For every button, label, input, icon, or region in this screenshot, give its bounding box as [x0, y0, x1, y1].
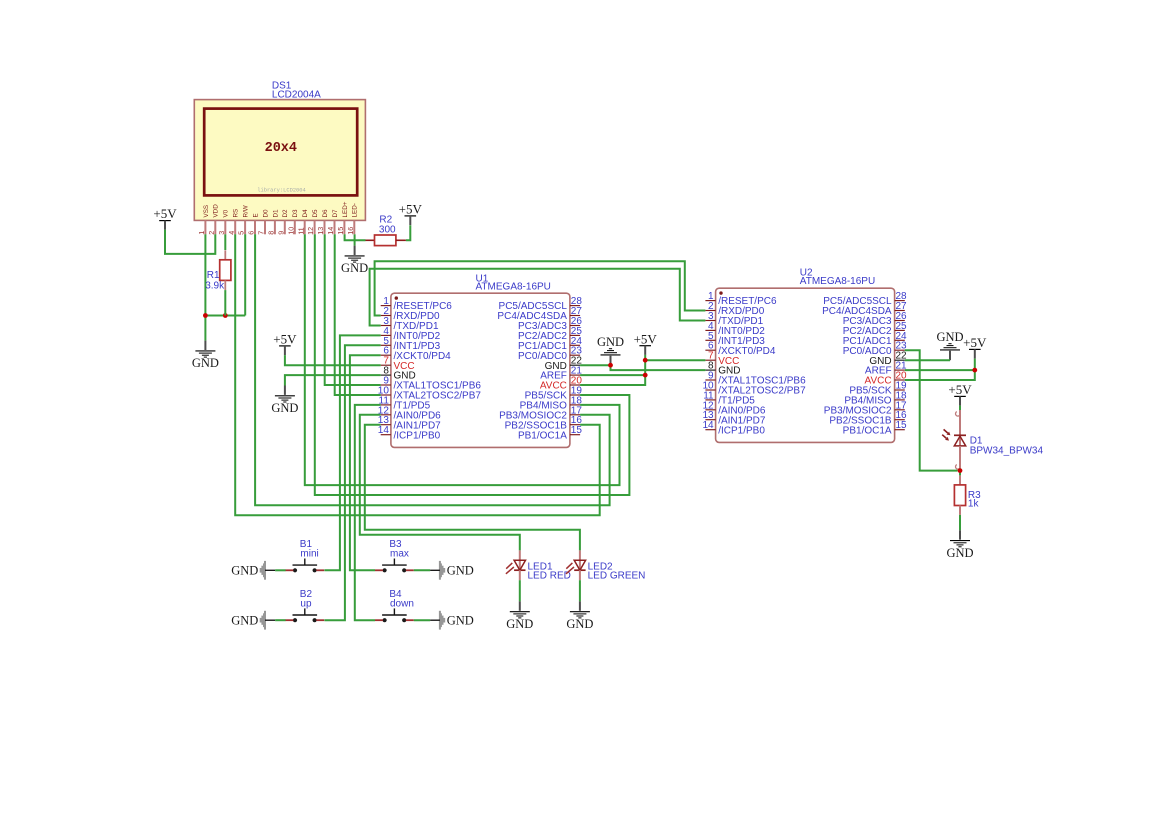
svg-text:D4: D4: [302, 209, 309, 218]
resistor R2 300 body: [375, 235, 396, 246]
svg-text:max: max: [390, 549, 409, 560]
LCD display DS1 LCD2004A body: [194, 100, 365, 221]
svg-text:7: 7: [257, 231, 266, 235]
junction U2 AREF junction: [972, 368, 977, 373]
svg-text:15: 15: [571, 425, 583, 436]
wire VDD to +5V: [165, 230, 215, 254]
LCD pin name labels (rotated): [203, 201, 359, 217]
svg-text:5: 5: [237, 231, 246, 235]
U2 right pin names: [822, 296, 892, 436]
svg-text:BPW34_BPW34: BPW34_BPW34: [970, 445, 1044, 456]
wire LCD D6 to U1 PB6: [325, 234, 381, 385]
svg-text:GND: GND: [936, 330, 963, 344]
LCD inner screen frame: [204, 109, 357, 196]
ground GND under U1 pin8: [271, 386, 298, 416]
svg-text:1: 1: [197, 231, 206, 235]
svg-text:GND: GND: [597, 335, 624, 349]
svg-text:300: 300: [379, 224, 396, 235]
wire R3 to GND: [959, 515, 961, 530]
svg-text:D6: D6: [322, 209, 329, 218]
svg-text:D5: D5: [312, 209, 319, 218]
wire U1 PD4 to B3: [350, 355, 381, 570]
svg-text:15: 15: [896, 420, 908, 431]
svg-text:15: 15: [336, 227, 345, 235]
svg-text:GND: GND: [946, 546, 973, 560]
wire LED1 to GND: [519, 580, 521, 601]
svg-text:down: down: [390, 598, 414, 609]
svg-text:E: E: [252, 213, 259, 217]
svg-text:D2: D2: [282, 209, 289, 218]
wire U1 TXD to U2 TXD: [370, 269, 706, 326]
svg-text:3: 3: [217, 231, 226, 235]
wire U1 AREF tap: [580, 374, 645, 376]
wire LED- to GND: [354, 234, 356, 245]
U1 right pin numbers: [571, 296, 583, 436]
wire LCD D7 to U1 PB7: [335, 234, 381, 395]
U2 left pin names: [718, 296, 806, 436]
svg-text:V0: V0: [223, 209, 230, 217]
wire LED+ to R2: [345, 234, 366, 240]
+5V supply for U1 VCC: [273, 332, 297, 356]
svg-text:mini: mini: [300, 549, 318, 560]
ground GND under LED1: [506, 601, 533, 631]
resistor R3 top lead: [959, 475, 961, 485]
svg-text:LED GREEN: LED GREEN: [588, 570, 646, 581]
svg-text:14: 14: [702, 420, 714, 431]
B2 gnd pin: [265, 619, 275, 621]
svg-text:library:LCD2004: library:LCD2004: [257, 188, 306, 194]
svg-text:13: 13: [316, 227, 325, 235]
wire B1 gnd wire: [275, 569, 286, 571]
U1 left pin stubs 1-14: [381, 306, 391, 435]
svg-text:11: 11: [296, 227, 305, 234]
pushbutton B1 mini: [285, 559, 324, 573]
IC U1 ATMEGA8-16PU body: [391, 293, 570, 447]
wire +5V to D1 cathode: [959, 406, 961, 410]
resistor R1 bottom lead: [224, 280, 226, 290]
svg-text:D3: D3: [292, 209, 299, 218]
chassis ground symbol right of B3: [439, 561, 445, 580]
svg-text:3.9k: 3.9k: [205, 280, 225, 291]
wire U2 AREF tap: [905, 369, 975, 371]
pushbutton B2 up: [285, 608, 324, 622]
+5V supply for photodiode: [948, 382, 972, 406]
svg-text:GND: GND: [341, 261, 368, 275]
wire U1 GND down: [285, 375, 381, 385]
svg-text:D0: D0: [262, 209, 269, 218]
photodiode D1 BPW34: [942, 410, 966, 469]
junction U1 pin22 GND junction: [608, 363, 613, 368]
B3 gnd pin: [430, 569, 440, 571]
svg-text:GND: GND: [566, 617, 593, 631]
U2 left pin numbers: [702, 291, 714, 431]
svg-text:R/W: R/W: [243, 205, 250, 217]
svg-text:14: 14: [378, 425, 390, 436]
wire V0 to R1 top: [224, 234, 226, 250]
svg-text:14: 14: [326, 227, 335, 235]
svg-text:GND: GND: [447, 564, 474, 578]
wire U1 PD2 to B1: [324, 335, 380, 570]
U2 right pin numbers: [896, 291, 908, 431]
wire U1 AVCC riser: [580, 355, 645, 385]
wire B3 gnd wire: [414, 569, 430, 571]
svg-text:/ICP1/PB0: /ICP1/PB0: [394, 430, 441, 441]
svg-text:LED RED: LED RED: [528, 570, 571, 581]
LCD pin numbers 1-16 (rotated): [197, 227, 355, 235]
junction VSS-GND rail: [203, 313, 208, 318]
ground GND at U1 pin22: [597, 335, 624, 365]
svg-text:up: up: [300, 598, 312, 609]
svg-text:RS: RS: [233, 209, 240, 218]
svg-text:GND: GND: [231, 614, 258, 628]
wire U2 AVCC riser: [905, 359, 975, 380]
wire D1 anode to node: [959, 468, 961, 475]
wire GND rail horizontal: [205, 315, 245, 317]
LED LED2 LED GREEN: [566, 550, 586, 580]
svg-text:VSS: VSS: [203, 205, 210, 218]
U2 pin-1 orientation dot: [719, 291, 722, 294]
U1 pin-1 orientation dot: [395, 296, 398, 299]
wire U1 RXD to U2 RXD: [375, 261, 706, 315]
U2 left pin stubs 1-14: [705, 301, 715, 430]
svg-text:+5V: +5V: [948, 382, 972, 397]
svg-text:2: 2: [207, 231, 216, 235]
svg-text:VDD: VDD: [213, 204, 220, 218]
resistor R1 top lead: [224, 250, 226, 259]
chassis ground symbol left of B2: [260, 611, 266, 630]
wire B2 gnd wire: [275, 619, 286, 621]
U1 left pin numbers: [378, 296, 390, 436]
wire LED2 to GND: [579, 580, 581, 601]
B1 gnd pin: [265, 569, 275, 571]
+5V supply for LCD backlight: [399, 202, 423, 226]
svg-text:+5V: +5V: [273, 332, 297, 347]
svg-text:GND: GND: [231, 564, 258, 578]
chassis ground symbol right of B4: [439, 611, 445, 630]
wire LCD RS to U1 PB2: [235, 234, 600, 515]
wire LCD D4 to U1 PB4: [305, 234, 620, 485]
ground GND under LED2: [566, 601, 593, 631]
svg-text:20x4: 20x4: [265, 141, 297, 156]
svg-text:8: 8: [267, 231, 276, 235]
LED LED1 LED RED: [506, 550, 526, 580]
IC U2 ATMEGA8-16PU body: [716, 288, 895, 442]
wire R2 to +5V: [406, 225, 410, 240]
svg-text:ATMEGA8-16PU: ATMEGA8-16PU: [476, 282, 551, 293]
junction R1-GND rail: [223, 313, 228, 318]
chassis ground symbol left of B1: [260, 561, 266, 580]
svg-text:9: 9: [276, 231, 285, 235]
wire U1 PD5 to B4: [355, 405, 381, 620]
resistor R1 3.9k body: [220, 260, 231, 281]
+5V supply for U1 AVCC: [634, 331, 658, 355]
junction photodiode node: [958, 468, 963, 473]
svg-text:PB1/OC1A: PB1/OC1A: [843, 425, 892, 436]
svg-text:/ICP1/PB0: /ICP1/PB0: [718, 425, 765, 436]
svg-text:GND: GND: [506, 617, 533, 631]
pushbutton B3 max: [375, 559, 414, 573]
junction U1 +5V to U2 VCC junction: [643, 358, 648, 363]
svg-text:+5V: +5V: [153, 206, 177, 221]
svg-text:4: 4: [227, 231, 236, 235]
wire VSS down to GND rail: [204, 234, 206, 340]
wire U1 pin22 GND to U2 GND: [580, 365, 705, 370]
wire U1 VCC to +5V: [285, 355, 381, 365]
U2 right pin stubs 28-15: [895, 301, 905, 430]
svg-text:GND: GND: [192, 356, 219, 370]
U1 left pin names: [394, 301, 482, 441]
wire U1 PD7 to LED2: [365, 425, 580, 551]
wire LCD D5 to U1 PB5: [315, 234, 630, 495]
resistor R3 bottom lead: [959, 506, 961, 515]
svg-text:1k: 1k: [968, 499, 980, 510]
LCD pin stubs 1-16: [205, 220, 354, 234]
svg-text:12: 12: [306, 227, 315, 235]
wire +5V to U2 VCC: [645, 359, 705, 361]
svg-text:+5V: +5V: [399, 202, 423, 217]
svg-text:10: 10: [286, 227, 295, 235]
pushbutton B4 down: [375, 608, 414, 622]
svg-text:+5V: +5V: [963, 335, 987, 350]
wire B4 gnd wire: [414, 619, 430, 621]
ground GND under R3: [946, 530, 973, 560]
ground GND under LED-: [341, 246, 368, 276]
wire LCD E to U1 PB3: [255, 234, 609, 505]
resistor R2 right lead: [396, 239, 406, 241]
+5V supply for LCD VDD: [153, 206, 177, 230]
svg-text:6: 6: [247, 231, 256, 235]
resistor R2 left lead: [366, 239, 375, 241]
svg-text:LED+: LED+: [342, 201, 349, 217]
svg-text:GND: GND: [271, 401, 298, 415]
ground GND under VSS: [192, 341, 219, 371]
svg-text:R1: R1: [207, 270, 220, 281]
wire U1 PD3 to B2: [324, 345, 380, 620]
ground GND at U2 pin22: [936, 330, 963, 360]
svg-text:LCD2004A: LCD2004A: [272, 90, 321, 101]
wire U1 PD6 to LED1: [360, 415, 520, 551]
svg-text:+5V: +5V: [634, 331, 658, 346]
junction U1 AREF junction: [643, 373, 648, 378]
svg-text:D7: D7: [332, 209, 339, 218]
svg-text:16: 16: [346, 227, 355, 235]
svg-text:ATMEGA8-16PU: ATMEGA8-16PU: [800, 276, 875, 287]
svg-text:LED-: LED-: [352, 203, 359, 217]
svg-text:GND: GND: [447, 614, 474, 628]
svg-text:D1: D1: [272, 209, 279, 218]
+5V supply for U2 AVCC: [963, 335, 987, 359]
wire U2 ADC0 to photodiode node: [905, 350, 958, 470]
U1 right pin names: [497, 301, 567, 441]
resistor R3 1k body: [954, 485, 965, 506]
B4 gnd pin: [430, 619, 440, 621]
wire R1 bottom to GND rail: [224, 290, 226, 315]
svg-text:PB1/OC1A: PB1/OC1A: [518, 430, 567, 441]
U1 right pin stubs 28-15: [570, 306, 580, 435]
wire U2 pin22 to GND: [905, 359, 950, 361]
wire R/W down to GND rail: [244, 234, 246, 315]
